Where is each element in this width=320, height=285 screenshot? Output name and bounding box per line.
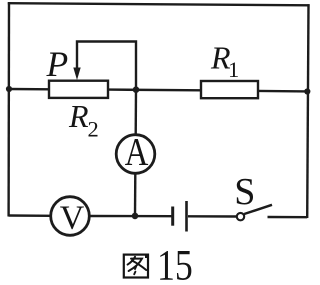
wiper arrow P of rheostat: [73, 42, 136, 90]
wire main, R1 to right side: [258, 90, 308, 93]
wire left side: [7, 2, 10, 217]
svg-text:V: V: [60, 200, 85, 237]
wire ammeter branch upper: [134, 90, 137, 135]
node: wiper tap / ammeter branch junction: [133, 86, 140, 93]
voltmeter V body: [51, 197, 90, 236]
switch S: [237, 205, 307, 221]
svg-text:A: A: [125, 131, 149, 174]
wire main, left node to rheostat R2: [9, 88, 50, 91]
wire bottom, left side to voltmeter: [9, 214, 52, 217]
svg-text:R2: R2: [68, 98, 99, 142]
wire bottom, voltmeter to battery: [90, 215, 172, 218]
svg-text:S: S: [234, 171, 255, 213]
wire ammeter branch lower: [134, 174, 137, 217]
svg-text:P: P: [46, 44, 69, 84]
resistor R1 body: [201, 81, 258, 98]
svg-text:15: 15: [157, 242, 193, 285]
node: main wire / left side junction: [6, 86, 12, 92]
rheostat R2 body: [49, 81, 108, 98]
wire top side: [8, 3, 310, 5]
battery cell: [173, 201, 236, 232]
wire main, R2 to R1: [108, 88, 201, 91]
node: bottom wire / ammeter branch junction: [132, 213, 139, 220]
node: main wire / right side junction: [304, 88, 310, 94]
caption glyph TU (figure): [124, 254, 149, 278]
svg-text:R1: R1: [210, 40, 239, 83]
ammeter A body: [116, 135, 155, 174]
wire right side: [307, 4, 308, 218]
